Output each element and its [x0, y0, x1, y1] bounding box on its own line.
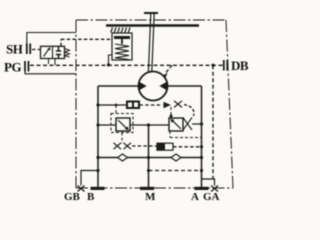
- svg-text:M: M: [145, 191, 156, 203]
- svg-text:PG: PG: [4, 60, 21, 75]
- svg-text:A: A: [191, 191, 199, 203]
- svg-text:DB: DB: [231, 58, 249, 73]
- svg-text:SH: SH: [6, 42, 23, 57]
- svg-text:GA: GA: [203, 191, 220, 203]
- svg-text:B: B: [87, 191, 95, 203]
- svg-text:GB: GB: [64, 191, 81, 203]
